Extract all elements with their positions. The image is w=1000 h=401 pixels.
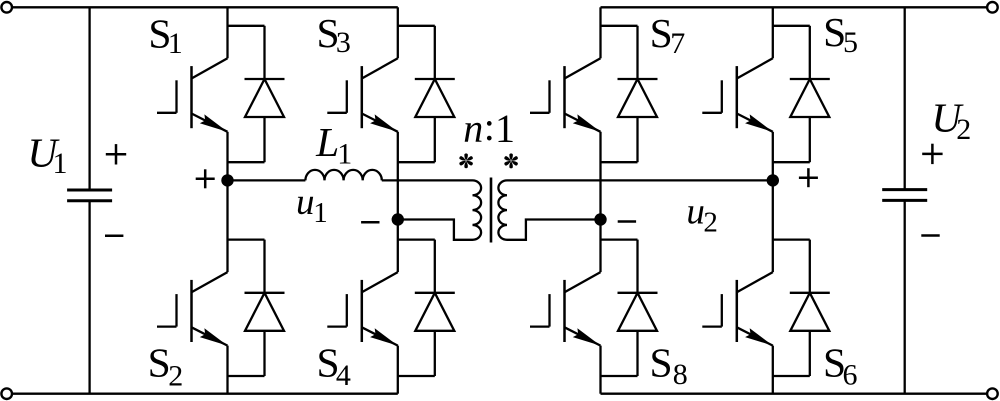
diode (S8 antiparallel)	[601, 240, 658, 376]
wire S5 emitter lead	[772, 132, 774, 181]
capacitor U1 top lead	[88, 7, 90, 190]
label L1	[315, 119, 352, 171]
wire secondary return to node C	[507, 220, 601, 240]
node A (bridge 1 output +)	[221, 174, 233, 186]
wire bottom rail (left bridge)	[12, 393, 398, 395]
label − (U2 polarity)	[921, 234, 939, 237]
wire primary return to node B	[398, 220, 473, 240]
svg-text::: :	[484, 104, 495, 149]
terminal (top-right output)	[987, 2, 998, 13]
label + (U2 polarity)	[922, 144, 942, 164]
svg-text:2: 2	[168, 359, 183, 392]
transistor S1 (IGBT)	[157, 58, 228, 132]
polarity mark * (primary)	[459, 153, 474, 168]
svg-text:3: 3	[336, 26, 351, 59]
node C (bridge 2 input −)	[594, 213, 606, 225]
wire S1 collector lead	[226, 7, 228, 58]
svg-text:L: L	[315, 119, 339, 165]
transistor S8 (IGBT)	[530, 272, 601, 346]
svg-text:2: 2	[703, 206, 718, 238]
diode (S4 antiparallel)	[398, 240, 455, 376]
transformer core	[490, 178, 493, 243]
wire secondary to node D	[507, 179, 773, 181]
polarity mark * (secondary)	[504, 153, 519, 168]
label + (node A)	[196, 169, 215, 188]
svg-text:5: 5	[843, 26, 858, 59]
label U1	[27, 130, 67, 180]
wire S1 emitter lead	[226, 132, 228, 181]
label S7	[650, 10, 686, 60]
wire S7 emitter lead	[599, 132, 601, 220]
svg-text:2: 2	[956, 113, 971, 146]
wire S8 emitter lead	[599, 346, 601, 394]
wire S6 emitter lead	[772, 346, 774, 394]
transistor S6 (IGBT)	[702, 272, 773, 346]
label S6	[823, 339, 858, 391]
svg-text:4: 4	[336, 359, 351, 392]
wire top rail (left bridge)	[12, 6, 398, 8]
wire S2 collector lead	[226, 180, 228, 272]
diode (S2 antiparallel)	[228, 240, 285, 376]
svg-text:u: u	[686, 192, 705, 233]
svg-text:1: 1	[337, 138, 352, 171]
wire node A to L1	[228, 179, 306, 181]
svg-text:n: n	[463, 106, 483, 151]
transformer T1 primary winding	[473, 180, 482, 239]
diode (S3 antiparallel)	[398, 26, 455, 162]
svg-text:S: S	[649, 340, 672, 386]
wire S8 collector lead	[599, 220, 601, 273]
wire S5 collector lead	[772, 7, 774, 58]
label + (node D)	[799, 168, 818, 187]
diode (S5 antiparallel)	[773, 26, 830, 162]
capacitor U1 bottom lead	[88, 201, 90, 394]
svg-text:1: 1	[53, 147, 68, 180]
inductor L1	[305, 170, 381, 181]
svg-text:S: S	[650, 10, 673, 56]
label + (U1 polarity)	[106, 144, 126, 164]
svg-text:1: 1	[168, 27, 183, 60]
svg-text:1: 1	[313, 197, 328, 229]
capacitor U1	[67, 190, 112, 201]
transformer T1 secondary winding	[498, 180, 507, 239]
svg-text:1: 1	[495, 106, 515, 151]
label U2	[931, 94, 971, 146]
label − (node C)	[618, 220, 636, 223]
label S3	[317, 10, 351, 59]
diode (S1 antiparallel)	[228, 26, 285, 162]
svg-text:6: 6	[843, 359, 858, 392]
wire S2 emitter lead	[226, 346, 228, 394]
wire S4 collector lead	[397, 220, 399, 273]
svg-text:u: u	[296, 182, 315, 223]
node D (bridge 2 input +)	[767, 174, 779, 186]
diode (S7 antiparallel)	[601, 26, 658, 162]
capacitor U2 bottom lead	[904, 200, 906, 393]
diode (S6 antiparallel)	[773, 240, 830, 376]
wire L1 to transformer primary	[382, 179, 473, 181]
wire top rail (right bridge)	[601, 6, 988, 8]
terminal (bottom-left input)	[1, 388, 12, 399]
transistor S5 (IGBT)	[702, 58, 773, 132]
svg-text:8: 8	[673, 358, 688, 391]
svg-text:7: 7	[670, 27, 685, 60]
label u2	[686, 192, 718, 239]
node B (bridge 1 output −)	[392, 213, 404, 225]
label S8	[649, 340, 687, 391]
capacitor U2	[882, 190, 927, 201]
capacitor U2 top lead	[904, 7, 906, 189]
transistor S2 (IGBT)	[157, 272, 228, 346]
wire S3 emitter lead	[397, 132, 399, 220]
label S5	[823, 9, 858, 59]
wire S3 collector lead	[397, 7, 399, 58]
label u1	[296, 182, 328, 229]
terminal (top-left input)	[1, 2, 12, 13]
terminal (bottom-right output)	[987, 388, 998, 399]
label S4	[317, 339, 351, 392]
transistor S4 (IGBT)	[327, 272, 398, 346]
wire S6 collector lead	[772, 180, 774, 272]
label n:1 (turns ratio)	[463, 104, 515, 151]
transistor S3 (IGBT)	[327, 58, 398, 132]
label S2	[148, 339, 184, 392]
transistor S7 (IGBT)	[530, 58, 601, 132]
label S1	[148, 11, 182, 61]
wire S7 collector lead	[599, 7, 601, 58]
label − (node B)	[361, 221, 379, 224]
wire S4 emitter lead	[397, 346, 399, 394]
label − (U1 polarity)	[105, 235, 123, 238]
wire bottom rail (right bridge)	[601, 393, 988, 395]
